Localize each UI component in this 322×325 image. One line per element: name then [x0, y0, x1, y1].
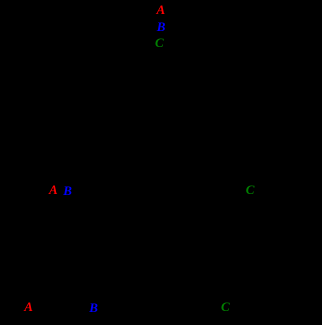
node C (middle-right label): [246, 183, 255, 196]
node C (bottom-right label): [221, 300, 230, 313]
node A (bottom-left label): [24, 300, 33, 313]
node A (top vertex label): [157, 3, 166, 16]
node B (middle-left label): [63, 184, 72, 197]
node C (top vertex label): [155, 36, 164, 49]
node B (bottom-middle label): [89, 301, 98, 314]
node B (top vertex label): [157, 20, 166, 33]
node A (middle-left label): [49, 183, 58, 196]
